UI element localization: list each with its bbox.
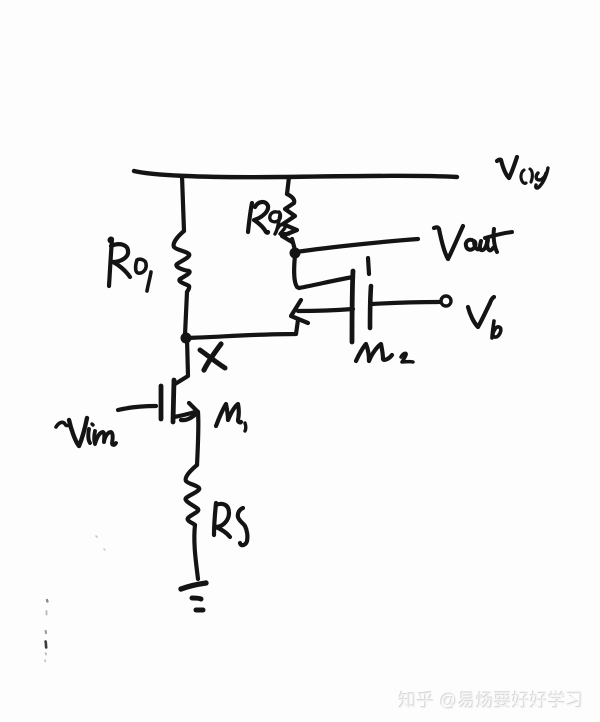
wire VDD rail to RD1	[182, 176, 184, 231]
label RS	[214, 503, 247, 545]
wire RD1 to node X	[185, 292, 187, 335]
node X junction	[181, 333, 192, 344]
wire RS to ground	[194, 525, 198, 579]
resistor RS	[186, 465, 200, 525]
transistor M2 channel	[352, 271, 353, 342]
terminal Vb	[441, 296, 451, 306]
transistor M1 gate wire	[118, 406, 156, 410]
wire node X to M2 source	[186, 320, 298, 338]
watermark text	[399, 687, 584, 713]
wire Vout node to label	[296, 239, 418, 252]
label RD2	[248, 202, 289, 234]
label X	[200, 344, 225, 370]
transistor M2 source arrow	[291, 300, 308, 323]
wire M1 source to RS	[197, 412, 198, 465]
label Vout	[434, 226, 512, 259]
label M2	[356, 344, 413, 362]
wire M2 gate to Vb terminal	[372, 302, 439, 304]
wire VDD rail	[134, 171, 457, 177]
node Vout junction	[290, 248, 301, 259]
transistor M1 gate bar	[159, 386, 164, 419]
transistor M1 channel	[173, 380, 174, 422]
transistor M2 gate dash	[368, 258, 369, 274]
transistor M1 source lead	[174, 412, 195, 417]
wire VDD rail to RD2	[287, 177, 289, 194]
transistor M1 drain wire	[175, 338, 188, 384]
transistor M2 source lead	[298, 309, 353, 311]
wire RD2 to Vout node	[292, 239, 295, 250]
label RD1	[109, 239, 151, 291]
resistor RD1	[174, 231, 190, 292]
resistor RD2	[282, 194, 297, 242]
transistor M1 source arrow	[181, 403, 198, 420]
transistor M2 gate bar	[370, 286, 371, 328]
label VDD	[497, 157, 548, 188]
label Vin	[56, 418, 116, 446]
label Vb	[468, 297, 501, 338]
transistor M2 drain wire	[294, 255, 353, 288]
ground	[181, 583, 206, 610]
label M1	[216, 404, 246, 431]
